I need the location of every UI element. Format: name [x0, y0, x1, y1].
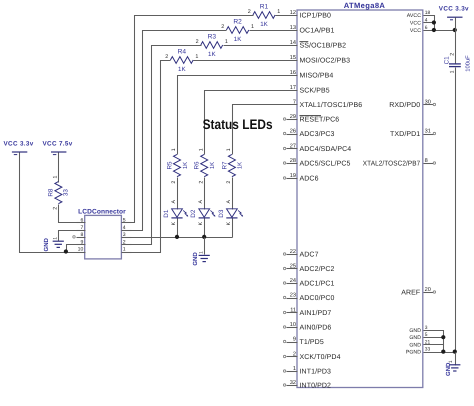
wire GND pin3 [424, 331, 444, 353]
svg-text:16: 16 [290, 70, 296, 76]
svg-text:A: A [226, 200, 232, 204]
svg-text:ADC3/PC3: ADC3/PC3 [300, 130, 335, 138]
pin 28 ADC5/SCL/PC5 (left) [283, 158, 350, 168]
pin 26 ADC3/PC3 (left) [283, 128, 334, 138]
wire VCC bar down to C1 [455, 18, 457, 64]
svg-text:32: 32 [290, 380, 296, 386]
pin 3 GND (right) [409, 325, 427, 334]
svg-text:3: 3 [123, 232, 126, 238]
svg-text:XCK/T0/PD4: XCK/T0/PD4 [300, 353, 341, 361]
power VCC 3.3v (top right) [439, 5, 469, 19]
pin 16 MISO/PB4 (left) [290, 70, 334, 80]
wire R7 to D3 [232, 178, 234, 210]
pin 10 AIN0/PD6 (left) [283, 322, 331, 332]
svg-text:K: K [226, 221, 232, 225]
svg-text:13: 13 [290, 25, 296, 31]
wire down to ground [455, 353, 457, 366]
resistor R5 1K (vertical) [166, 148, 188, 183]
node pin4 junction [432, 20, 436, 24]
svg-text:8: 8 [80, 232, 83, 238]
svg-text:T1/PD5: T1/PD5 [300, 338, 324, 346]
svg-text:D1: D1 [163, 209, 170, 218]
svg-text:2: 2 [226, 181, 232, 184]
wire R4 left, down to LCD [122, 61, 171, 253]
svg-text:R7: R7 [221, 161, 228, 170]
wire LCD pin9 drop to pin10 net [67, 245, 77, 253]
svg-text:1: 1 [198, 251, 204, 254]
pin 24 ADC1/PC1 (left) [283, 278, 334, 288]
svg-text:LCDConnector: LCDConnector [78, 208, 126, 215]
svg-text:AREF: AREF [401, 290, 420, 297]
svg-text:9: 9 [80, 239, 83, 245]
svg-text:AVCC: AVCC [407, 13, 421, 19]
svg-text:1: 1 [198, 148, 204, 151]
pin 15 MOSI/OC2/PB3 (left) [290, 55, 350, 65]
svg-text:ADC2/PC2: ADC2/PC2 [300, 265, 335, 273]
pin 4 LCDConnector (right) [122, 225, 132, 231]
svg-text:GND: GND [409, 328, 421, 334]
pin 2 LCDConnector (right) [122, 239, 132, 245]
svg-text:22: 22 [290, 249, 296, 255]
svg-text:GND: GND [192, 252, 199, 266]
svg-text:D3: D3 [218, 209, 225, 218]
svg-text:MOSI/OC2/PB3: MOSI/OC2/PB3 [300, 57, 351, 65]
pin 9 T1/PD5 (left) [283, 336, 323, 346]
svg-text:ICP1/PB0: ICP1/PB0 [300, 12, 332, 20]
pin 14 SS/OC1B/PB2 (left) [290, 40, 346, 50]
svg-text:RXD/PD0: RXD/PD0 [389, 101, 420, 109]
svg-text:2: 2 [165, 54, 168, 60]
svg-text:XTAL1/TOSC1/PB6: XTAL1/TOSC1/PB6 [300, 101, 363, 109]
pin 4 VCC (right) [410, 18, 428, 27]
resistor R7 1K (vertical) [221, 148, 243, 183]
node main vertical junction [453, 350, 457, 354]
svg-text:1: 1 [226, 148, 232, 151]
svg-text:12: 12 [290, 10, 296, 16]
pin 8 XTAL2/TOSC2/PB7 (right) [363, 158, 436, 168]
svg-text:1K: 1K [209, 162, 216, 169]
svg-text:2: 2 [171, 181, 177, 184]
svg-text:2: 2 [449, 53, 455, 56]
svg-text:ADC0/PC0: ADC0/PC0 [300, 294, 335, 302]
wire VCC pin6 to vertical [424, 30, 456, 32]
svg-text:MISO/PB4: MISO/PB4 [300, 72, 334, 80]
wire GND pin5 [424, 337, 444, 339]
svg-text:VCC 7.5v: VCC 7.5v [43, 141, 73, 148]
svg-text:1: 1 [449, 70, 455, 73]
svg-text:28: 28 [290, 158, 296, 164]
svg-text:31: 31 [425, 128, 431, 134]
svg-text:10: 10 [290, 322, 296, 328]
svg-text:26: 26 [290, 128, 296, 134]
wire D3 cathode to rail [232, 219, 234, 238]
svg-text:R5: R5 [166, 161, 173, 170]
pin 5 LCDConnector (right) [122, 218, 132, 224]
pin 18 AVCC (right) [407, 10, 431, 19]
svg-text:7: 7 [80, 225, 83, 231]
power VCC 3.3v (left) [4, 141, 34, 155]
wire chip to R5 column [178, 76, 298, 155]
svg-text:XTAL2/TOSC2/PB7: XTAL2/TOSC2/PB7 [363, 160, 421, 168]
svg-text:1K: 1K [208, 51, 216, 58]
svg-text:2: 2 [53, 207, 59, 210]
node pin5 junction [441, 335, 445, 339]
svg-text:PGND: PGND [406, 350, 421, 356]
pin 8 LCDConnector (left) [77, 232, 86, 238]
pin 10 LCDConnector (left) [77, 247, 86, 253]
pin 1 LCDConnector (right) [122, 247, 132, 253]
svg-text:VCC 3.3v: VCC 3.3v [4, 141, 34, 148]
pin 1 INT1/PD3 (left) [283, 366, 331, 376]
svg-text:9: 9 [293, 336, 296, 342]
svg-text:1K: 1K [178, 66, 186, 73]
svg-text:2: 2 [198, 181, 204, 184]
wire VCC pin4 [424, 22, 435, 24]
wire R2 left, down to LCD [122, 31, 227, 231]
LCD pin8 no-connect [73, 236, 75, 238]
wire R1 right to chip [276, 15, 298, 17]
svg-text:ADC6: ADC6 [300, 176, 319, 183]
svg-text:29: 29 [290, 114, 296, 120]
pin 19 ADC6 (left) [283, 173, 318, 183]
svg-text:ADC7: ADC7 [300, 252, 319, 259]
node pin33 junction [441, 350, 445, 354]
svg-text:1K: 1K [260, 21, 268, 28]
svg-text:8: 8 [425, 158, 428, 164]
IC U1 ATMega8A [297, 1, 423, 387]
LED D2 [190, 200, 215, 226]
wire R6 to D2 [204, 178, 206, 210]
wire VCC3.3 down to LCD pin10 [20, 153, 77, 253]
svg-text:AIN0/PD6: AIN0/PD6 [300, 324, 332, 332]
LED D1 [163, 200, 188, 226]
pin 23 ADC0/PC0 (left) [283, 292, 334, 302]
wire chip to R7 column [233, 105, 298, 155]
resistor R2 1K [221, 18, 254, 43]
svg-text:INT0/PD2: INT0/PD2 [300, 382, 332, 390]
svg-text:R6: R6 [194, 161, 201, 170]
svg-text:6: 6 [80, 218, 83, 224]
wire GND pin21 [424, 344, 444, 346]
pin 9 LCDConnector (left) [77, 239, 86, 245]
wire chip to R6 column [205, 91, 298, 155]
ground (bottom right) [445, 360, 460, 376]
svg-text:1K: 1K [234, 36, 242, 43]
svg-text:GND: GND [409, 342, 421, 348]
svg-text:5: 5 [123, 218, 126, 224]
pin 29 RESET/PC6 (left) [283, 114, 339, 124]
wire R5 to D1 [177, 178, 179, 210]
wire LCD pin7 to ground [59, 231, 77, 242]
svg-text:33: 33 [425, 347, 431, 353]
svg-text:1: 1 [195, 54, 198, 60]
connector J1 LCDConnector [78, 208, 126, 259]
svg-text:GND: GND [43, 237, 50, 251]
pin 5 GND (right) [409, 332, 427, 341]
svg-text:2: 2 [293, 351, 296, 357]
svg-text:VCC: VCC [410, 28, 421, 34]
svg-text:1: 1 [293, 366, 296, 372]
svg-text:27: 27 [290, 143, 296, 149]
svg-text:SCK/PB5: SCK/PB5 [300, 87, 330, 95]
pin 32 INT0/PD2 (left) [283, 380, 331, 390]
pin 30 RXD/PD0 (right) [389, 99, 435, 109]
node pin6/column junction [432, 28, 436, 32]
svg-text:1: 1 [448, 360, 454, 363]
svg-text:1: 1 [171, 148, 177, 151]
LED D3 [218, 200, 243, 226]
svg-text:ADC4/SDA/PC4: ADC4/SDA/PC4 [300, 145, 352, 153]
svg-text:ADC5/SCL/PC5: ADC5/SCL/PC5 [300, 160, 351, 168]
svg-text:1: 1 [225, 39, 228, 45]
wire R8 to LCD pin6 [59, 205, 77, 223]
pin 20 AREF (right) [401, 287, 435, 297]
svg-text:2: 2 [196, 39, 199, 45]
svg-text:RESET/PC6: RESET/PC6 [300, 116, 340, 124]
svg-text:D2: D2 [190, 209, 197, 218]
pin 13 OC1A/PB1 (left) [290, 25, 335, 35]
svg-text:SS/OC1B/PB2: SS/OC1B/PB2 [300, 42, 347, 50]
svg-text:2: 2 [221, 24, 224, 30]
svg-text:INT1/PD3: INT1/PD3 [300, 368, 332, 376]
svg-text:VCC: VCC [410, 21, 421, 27]
node pin9/pin10 junction [64, 249, 68, 253]
wire AVCC pin18 to VCC column [424, 16, 435, 31]
svg-text:1: 1 [52, 237, 58, 240]
svg-text:A: A [171, 200, 177, 204]
pin 31 TXD/PD1 (right) [390, 128, 436, 138]
resistor R4 1K [165, 48, 198, 73]
pin 7 LCDConnector (left) [77, 225, 86, 231]
svg-text:11: 11 [290, 307, 296, 313]
pin 17 SCK/PB5 (left) [290, 85, 330, 95]
pin 33 PGND (right) [406, 347, 431, 356]
svg-text:R2: R2 [233, 18, 242, 25]
wire D2 cathode to rail [204, 219, 206, 238]
svg-text:ADC1/PC1: ADC1/PC1 [300, 280, 335, 288]
svg-text:14: 14 [290, 40, 296, 46]
node rail-D2 junction [202, 235, 206, 239]
svg-text:25: 25 [290, 263, 296, 269]
node rail-D1 junction [175, 235, 179, 239]
wire LED cathode rail (LCD pin3 net) [122, 237, 233, 239]
svg-text:20: 20 [425, 287, 431, 293]
svg-text:R1: R1 [260, 3, 269, 10]
pin 2 XCK/T0/PD4 (left) [283, 351, 340, 361]
pin 27 ADC4/SDA/PC4 (left) [283, 143, 351, 153]
svg-text:15: 15 [290, 55, 296, 61]
ground (below LEDs) [192, 251, 210, 266]
svg-text:A: A [198, 200, 204, 204]
svg-text:GND: GND [409, 335, 421, 341]
svg-text:33: 33 [63, 189, 70, 197]
wire R1 left, down to LCD [122, 16, 254, 223]
resistor R6 1K (vertical) [194, 148, 216, 183]
svg-text:ATMega8A: ATMega8A [344, 1, 386, 10]
pin 7 XTAL1/TOSC1/PB6 (left) [293, 99, 362, 109]
svg-text:C1: C1 [444, 56, 451, 65]
wire R4 right to chip [194, 60, 298, 62]
svg-text:VCC 3.3v: VCC 3.3v [439, 5, 469, 12]
svg-text:1: 1 [277, 9, 280, 15]
node VCC vertical junction [453, 28, 457, 32]
pin 3 LCDConnector (right) [122, 232, 132, 238]
wire R3 right to chip [224, 45, 298, 47]
pin 6 VCC (right) [410, 25, 428, 34]
svg-text:K: K [171, 221, 177, 225]
wire rail to ground [204, 238, 206, 255]
pin 11 AIN1/PD7 (left) [283, 307, 331, 317]
pin 21 GND (right) [409, 339, 430, 348]
pin 25 ADC2/PC2 (left) [283, 263, 334, 273]
capacitor C1 100uF [444, 53, 472, 74]
wire VCC7.5 to R8 [58, 153, 60, 183]
wire R2 right to chip [250, 30, 298, 32]
svg-text:R8: R8 [47, 188, 54, 197]
svg-text:AIN1/PD7: AIN1/PD7 [300, 309, 332, 317]
svg-text:1: 1 [251, 24, 254, 30]
svg-text:30: 30 [425, 99, 431, 105]
svg-text:24: 24 [290, 278, 296, 284]
wire D1 cathode to rail [177, 219, 179, 238]
svg-text:K: K [198, 221, 204, 225]
ground (left of LCD) [43, 237, 64, 252]
svg-text:TXD/PD1: TXD/PD1 [390, 130, 420, 138]
svg-text:10: 10 [78, 247, 84, 253]
svg-text:1K: 1K [182, 162, 189, 169]
wire C1 down to PGND row [455, 68, 457, 353]
svg-text:R3: R3 [208, 33, 217, 40]
resistor R3 1K [196, 33, 228, 58]
wire PGND pin33 to main vertical [424, 352, 456, 354]
power VCC 7.5v [43, 141, 73, 155]
svg-text:OC1A/PB1: OC1A/PB1 [300, 27, 335, 35]
svg-text:1K: 1K [237, 162, 244, 169]
svg-text:4: 4 [123, 225, 126, 231]
svg-text:2: 2 [123, 239, 126, 245]
svg-text:R4: R4 [178, 48, 187, 55]
svg-text:100uF: 100uF [465, 55, 472, 72]
svg-text:Status LEDs: Status LEDs [203, 117, 273, 132]
svg-text:19: 19 [290, 173, 296, 179]
svg-text:2: 2 [248, 9, 251, 15]
svg-text:23: 23 [290, 292, 296, 298]
svg-text:17: 17 [290, 85, 296, 91]
pin 6 LCDConnector (left) [77, 218, 86, 224]
pin 12 ICP1/PB0 (left) [290, 10, 331, 20]
svg-text:1: 1 [53, 175, 59, 178]
wire R3 left, down to LCD [122, 46, 202, 245]
resistor R8 33 (vertical) [47, 175, 69, 209]
pin 22 ADC7 (left) [283, 249, 318, 259]
resistor R1 1K [248, 3, 281, 28]
svg-text:1: 1 [123, 247, 126, 253]
